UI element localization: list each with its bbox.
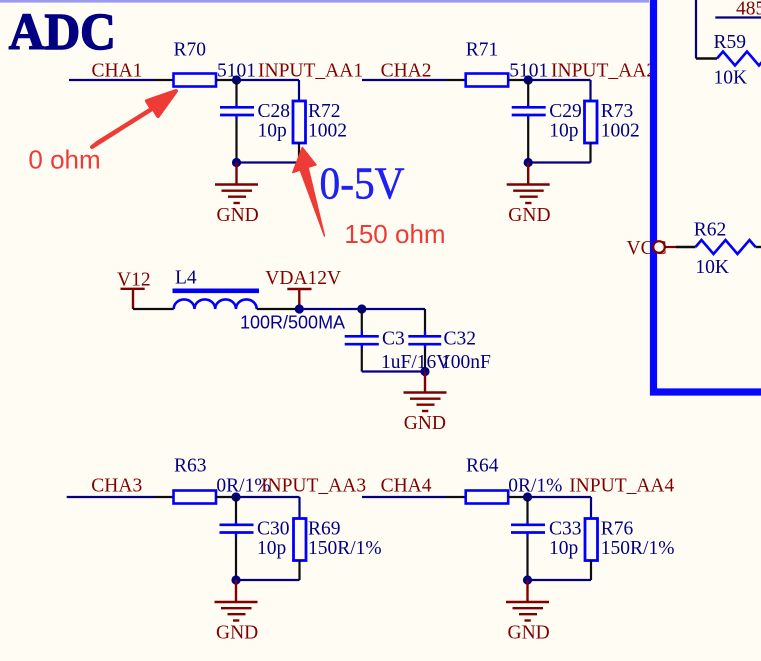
pin C29.2 [527, 119, 529, 163]
resistor R71 [466, 74, 509, 87]
resistor R59 (zigzag) [717, 52, 761, 66]
capacitor C33 [526, 522, 528, 525]
svg-text:GND: GND [216, 622, 258, 643]
resistor R73 [585, 101, 598, 143]
pin C33.1 [526, 497, 528, 522]
svg-text:R62: R62 [694, 219, 727, 240]
junction bottom row2 [524, 158, 533, 167]
junction C3 top [357, 304, 366, 313]
svg-text:C30: C30 [257, 519, 290, 540]
pin R70.1 [154, 79, 173, 81]
resistor R76 [585, 519, 598, 561]
svg-text:10p: 10p [549, 538, 578, 559]
svg-text:GND: GND [508, 205, 550, 226]
svg-text:150 ohm: 150 ohm [344, 219, 445, 249]
wire bottom row2 [528, 161, 590, 163]
wire VDA12V to C3 junction [299, 308, 362, 310]
wire junction to bend row3 [236, 496, 300, 498]
pin R63.1 [154, 496, 174, 498]
pin C32.2 [424, 348, 426, 372]
svg-text:10K: 10K [714, 68, 748, 89]
wire bend down to C32 [424, 309, 426, 331]
capacitor C3 [361, 331, 363, 335]
svg-text:GND: GND [508, 622, 550, 643]
svg-text:R59: R59 [714, 32, 747, 53]
pin R63.2 [216, 496, 236, 498]
pin C30.1 [235, 497, 237, 522]
svg-text:10p: 10p [258, 121, 287, 142]
svg-text:1002: 1002 [601, 121, 640, 142]
svg-text:R73: R73 [601, 101, 634, 122]
pin R71.1 [446, 79, 466, 81]
svg-text:10K: 10K [695, 257, 729, 278]
svg-text:C29: C29 [549, 101, 582, 122]
wire 485 net [715, 16, 761, 18]
svg-text:150R/1%: 150R/1% [601, 538, 675, 559]
pin L4.2 [257, 308, 299, 310]
svg-text:R63: R63 [174, 456, 207, 477]
wire CHA2 [362, 79, 446, 81]
svg-text:GND: GND [217, 205, 259, 226]
power port VDA12V [287, 289, 311, 308]
pin C33.2 [526, 537, 528, 581]
resistor R64 [466, 491, 509, 504]
pin C29.1 [527, 80, 529, 104]
power port V12 [121, 289, 145, 309]
node INPUT_AA3 junction [231, 492, 240, 501]
svg-text:C28: C28 [258, 101, 291, 122]
junction bottom row4 [523, 575, 532, 584]
annotation arrow to R72 [293, 148, 325, 237]
wire junction to bend row2 [528, 79, 590, 81]
wire bottom row4 [528, 579, 592, 581]
svg-text:150R/1%: 150R/1% [308, 538, 382, 559]
pin C3.2 [361, 348, 363, 372]
pin L4.1 [133, 308, 174, 310]
wire CHA4 [362, 496, 446, 498]
pin R59.1 [696, 57, 717, 59]
capacitor C29 [527, 104, 529, 107]
resistor R70 [174, 74, 217, 87]
pin R64.1 [446, 496, 466, 498]
wire CHA1 [69, 79, 154, 81]
capacitor C32 [424, 331, 426, 335]
wire junction to bend row4 [528, 496, 592, 498]
svg-text:R70: R70 [174, 40, 207, 61]
pin C28.2 [235, 119, 237, 163]
sheet border (blue L) [654, 0, 761, 392]
wire junction to bend [237, 79, 300, 81]
wire bottom row1 [237, 161, 300, 163]
svg-text:100nF: 100nF [441, 352, 491, 373]
svg-text:INPUT_AA2: INPUT_AA2 [551, 61, 656, 82]
capacitor C28 [235, 104, 237, 107]
wire bend down to R72 [298, 80, 300, 101]
ground GND row2 [507, 163, 550, 204]
node INPUT_AA1 junction [232, 75, 241, 84]
junction bottom row3 [231, 575, 240, 584]
svg-text:R76: R76 [601, 519, 634, 540]
wire bend down to R76 [590, 497, 592, 519]
svg-text:100R/500MA: 100R/500MA [240, 313, 345, 333]
svg-text:10p: 10p [549, 121, 578, 142]
annotation arrow to R70 [92, 91, 176, 147]
svg-text:C3: C3 [382, 329, 405, 350]
svg-text:0 ohm: 0 ohm [28, 145, 100, 175]
svg-text:C32: C32 [444, 329, 477, 350]
svg-text:1002: 1002 [308, 121, 347, 142]
svg-text:CHA4: CHA4 [381, 475, 432, 496]
wire bottom middle [362, 370, 425, 372]
ground GND row1 [215, 163, 258, 204]
pin C30.2 [235, 537, 237, 581]
svg-text:0-5V: 0-5V [320, 159, 405, 209]
junction bottom middle [420, 367, 429, 376]
svg-text:485: 485 [736, 0, 761, 20]
svg-text:R72: R72 [308, 101, 341, 122]
sheet top edge line [0, 0, 649, 3]
svg-text:CHA3: CHA3 [91, 475, 142, 496]
pin R69.2 [298, 561, 300, 581]
svg-text:GND: GND [404, 413, 446, 434]
pin R62.2 [756, 246, 761, 248]
junction bottom row1 [232, 158, 241, 167]
svg-text:V12: V12 [117, 269, 151, 290]
svg-text:INPUT_AA4: INPUT_AA4 [569, 475, 674, 496]
ground GND row4 [506, 580, 549, 621]
svg-text:C33: C33 [549, 519, 582, 540]
pin R71.2 [508, 79, 528, 81]
svg-text:CHA1: CHA1 [92, 60, 143, 81]
wire bend down to R73 [589, 80, 591, 101]
resistor R69 [294, 519, 307, 561]
wire VCC stub [666, 246, 677, 248]
node VDA12V junction [295, 304, 304, 313]
ground GND middle [404, 372, 447, 412]
pin R73.2 [589, 143, 591, 163]
svg-text:INPUT_AA3: INPUT_AA3 [261, 475, 366, 496]
pin R72.2 [298, 143, 300, 163]
svg-text:R71: R71 [466, 40, 499, 61]
svg-text:10p: 10p [257, 538, 286, 559]
svg-text:CHA2: CHA2 [381, 60, 432, 81]
svg-text:L4: L4 [175, 267, 197, 288]
wire bottom row3 [236, 579, 300, 581]
svg-text:0R/1%: 0R/1% [508, 475, 562, 496]
resistor R72 [293, 101, 306, 143]
resistor R62 (zigzag) [696, 240, 756, 254]
node INPUT_AA4 junction [523, 492, 532, 501]
pin R76.2 [590, 561, 592, 581]
svg-text:R69: R69 [308, 519, 341, 540]
pin C28.1 [235, 80, 237, 104]
pin C3.1 [361, 309, 363, 331]
svg-text:1uF/16V: 1uF/16V [381, 352, 450, 373]
pin R64.2 [508, 496, 527, 498]
svg-text:R64: R64 [466, 456, 499, 477]
ground GND row3 [215, 580, 258, 621]
svg-text:INPUT_AA1: INPUT_AA1 [258, 61, 363, 82]
capacitor C30 [235, 522, 237, 525]
wire down to R59 [695, 0, 697, 59]
wire CHA3 [67, 496, 154, 498]
wire bend down to R69 [298, 497, 300, 519]
node INPUT_AA2 junction [524, 75, 533, 84]
wire to C32 bend [362, 308, 425, 310]
pin R70.2 [216, 79, 237, 81]
svg-text:ADC: ADC [9, 3, 116, 60]
pin R62.1 [676, 246, 696, 248]
svg-text:VDA12V: VDA12V [265, 268, 341, 289]
resistor R63 [174, 491, 217, 504]
